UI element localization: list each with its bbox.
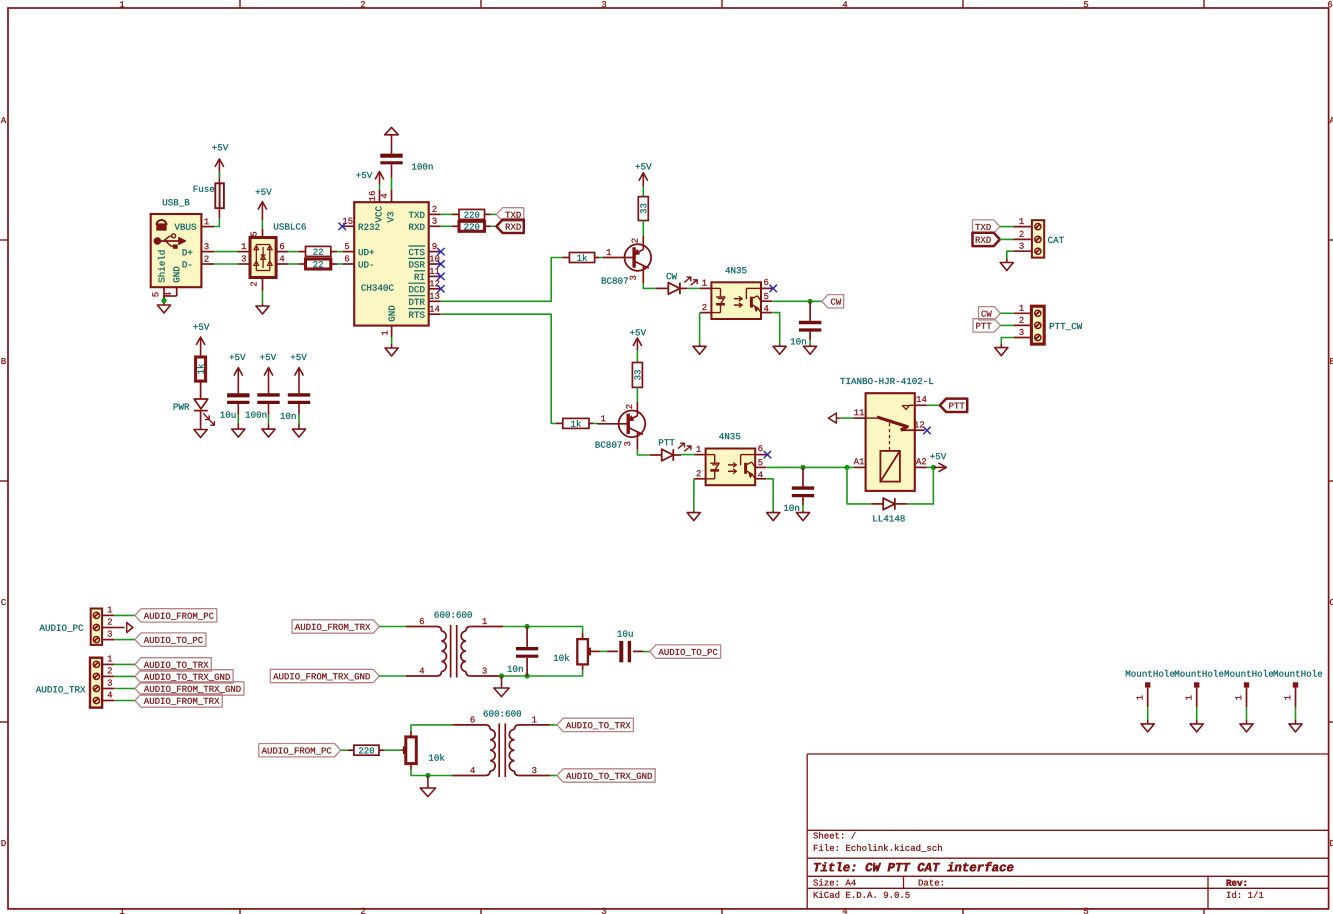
wire 4N35 pin4 to gnd [773, 313, 780, 345]
ground 100n [262, 423, 275, 437]
power +5V at CH340 VCC [356, 172, 384, 185]
power +5V at 33 (PTT) [630, 329, 646, 350]
wire USBLC6 pin6 to R 22 [288, 251, 298, 253]
wire H3 to gnd [1246, 707, 1248, 720]
wire LED to 4N35 pin1 (PTT) [681, 454, 694, 456]
global label AUDIO_TO_TRX at TR2 [557, 718, 633, 731]
global label PTT highlighted [940, 399, 967, 412]
wire +5V to R33 [642, 187, 644, 197]
resistor 1k (CW base) [562, 253, 599, 263]
global label CW [822, 295, 844, 308]
global label AUDIO_TO_PC at J4 [135, 633, 206, 646]
resistor 22 (D-) highlighted [299, 259, 338, 269]
ground 10n bypass [292, 423, 305, 437]
wire relay pin11 dangling [841, 417, 854, 419]
wire 1k to BC807 base [599, 257, 603, 259]
wire wiper to 10u [600, 650, 607, 652]
global label AUDIO_TO_TRX at J5 [135, 658, 211, 671]
LED PWR [174, 381, 215, 425]
resistor 1k (PWR) highlighted [196, 357, 206, 381]
wire 4N35 pin5 to CW label [773, 300, 822, 302]
transformer TR2 600:600 [452, 710, 550, 777]
IC CH340C U1 [342, 190, 441, 337]
wire J4 pin2 dangling [114, 627, 124, 629]
resistor 33 (PTT) [632, 363, 642, 388]
junction A2 [931, 465, 936, 470]
wire TR1 pin3 bus [501, 670, 583, 676]
wire TXD to R220 [441, 213, 452, 215]
wire label to R220 [341, 749, 348, 751]
wire Q1 collector to LED CW [643, 284, 655, 289]
unconnected end marker J4 pin2 [127, 623, 133, 633]
resistor 220 (RXD) highlighted [452, 221, 491, 231]
junction TR2 gnd tap [425, 773, 430, 778]
no-connect DSR [437, 260, 444, 267]
capacitor 10n bypass [281, 395, 311, 419]
ground PTT_CW [995, 344, 1008, 356]
wire 10n CW to gnd [809, 340, 811, 344]
no-connect DCD [437, 285, 444, 292]
wire J5 pin2 to label [114, 675, 135, 677]
LED CW indicator [656, 273, 698, 294]
ground flipped above 100n [385, 127, 399, 153]
ground H1 [1141, 720, 1154, 732]
wire pot top to TR2 pin6 [411, 725, 452, 731]
capacitor C? 10u coupling [607, 630, 643, 662]
global label AUDIO_TO_TRX_GND at J5 [135, 670, 233, 683]
ground 4N35 CW pin2 [693, 344, 706, 354]
no-connect 4N35 CW pin6 [770, 285, 777, 292]
global label AUDIO_TO_PC at 10u [650, 645, 721, 658]
junction PTT net at A1 [844, 465, 849, 470]
wire +5V to R33 PTT [636, 350, 638, 363]
wire R220 to TXD label [491, 213, 497, 215]
power +5V above USBLC6 [256, 189, 272, 220]
wire R33 to Q2 emitter [636, 387, 638, 402]
mounting hole H2 [1175, 670, 1224, 707]
wire 10n PTT to gnd [802, 505, 804, 511]
bypass capacitors +5V rails [230, 354, 307, 393]
global label PTT at PTT_CW [973, 319, 1000, 332]
wire to TR1 pin4 [379, 675, 406, 677]
wire 4N35 pin2 to gnd [699, 313, 701, 345]
wire CH340 GND [391, 337, 393, 344]
wire RXD to CAT pin2 [1000, 238, 1013, 240]
ground 10u [232, 423, 245, 437]
connector J2 CAT [1013, 218, 1064, 258]
title block [807, 754, 1328, 909]
ground 4N35 CW pin4 [773, 344, 786, 354]
wire 10u to label [643, 651, 649, 653]
optocoupler U3 4N35 (CW) [700, 267, 772, 319]
wire TR2 pin3 to label [550, 775, 557, 777]
mounting hole H1 [1126, 670, 1175, 707]
wire CAT pin3 to gnd [1007, 251, 1013, 258]
capacitor 100n (V3) [380, 156, 432, 170]
fuse F1 [194, 183, 224, 208]
wire TXD to CAT pin1 [1000, 226, 1013, 228]
global label AUDIO_TO_TRX_GND at TR2 [557, 769, 655, 782]
power +5V at relay A2 (rotated) [930, 453, 946, 472]
wire R220 to pot wiper [384, 749, 401, 751]
global label AUDIO_FROM_TRX_GND at J5 [135, 682, 244, 695]
diode D3 LL4148 [871, 498, 907, 521]
transistor Q2 BC807 (PTT) [596, 402, 646, 450]
connector J5 AUDIO_TRX [36, 655, 114, 707]
power +5V at 33 (CW) [636, 163, 652, 186]
global label RXD at CAT highlighted [973, 233, 1000, 246]
wire 100n to V3 pin [391, 164, 393, 190]
unconnected end marker pin11 [828, 413, 840, 423]
capacitor 10n (de-emphasis) [508, 627, 539, 677]
wire TR1 pin1 to pot [503, 627, 582, 634]
wire J5 pin4 to label [114, 700, 135, 702]
no-connect CTS [437, 248, 444, 255]
ground 4N35 PTT pin2 [687, 511, 700, 521]
wire 10n to gnd [298, 415, 300, 424]
resistor 22 (D+) [299, 246, 338, 256]
USB protection USBLC6 U2 [238, 223, 306, 290]
capacitor 10n (PTT) [784, 467, 814, 510]
ground H2 [1190, 720, 1203, 732]
wire R22 to CH340 UD+ [337, 251, 342, 253]
global label AUDIO_FROM_TRX_GND at TR1 [270, 669, 379, 682]
wire R220 to RXD label [491, 225, 497, 227]
ground H3 [1240, 720, 1253, 732]
wire DTR to CW 1k [441, 258, 563, 302]
wire USBLC6 pin2 to ground [262, 291, 264, 304]
junction 10n bottom [525, 673, 530, 678]
wire J5 pin3 to label [114, 688, 135, 690]
potentiometer RV2 10k highlighted [401, 731, 444, 769]
wire 100n to gnd [268, 415, 270, 424]
wire TR2 pin1 to label [550, 724, 557, 726]
ground CH340 [385, 344, 398, 356]
global label AUDIO_FROM_PC at R220 [259, 744, 341, 757]
wire H4 to gnd [1295, 707, 1297, 720]
wire RXD to R220 [441, 225, 452, 227]
junction CW net [808, 299, 813, 304]
wire +5V to USBLC6 pin5 [261, 220, 263, 229]
USB_B connector J1 [151, 199, 215, 299]
wire A1 to flyback diode [847, 467, 871, 504]
wire R22 to CH340 UD- [337, 263, 342, 265]
wire Q2 collector to LED PTT [637, 450, 650, 456]
ground H4 [1289, 720, 1302, 732]
no-connect 4N35 PTT pin6 [764, 451, 771, 458]
global label TXD [496, 208, 523, 221]
no-connect RI [437, 273, 444, 280]
LED PTT indicator [650, 439, 691, 460]
wire J4 pin1 to label [114, 614, 135, 616]
global label AUDIO_FROM_TRX at TR1 [292, 620, 379, 633]
wire relay pin14 to PTT label [927, 404, 940, 406]
global label CW at PTT_CW [979, 307, 1001, 320]
resistor 220 (audio) [348, 745, 384, 755]
ground 4N35 PTT pin4 [767, 511, 780, 521]
resistor 33 (CW) [638, 197, 648, 221]
wire 4N35 pin5 to relay A1 [767, 466, 854, 468]
wire fuse to VBUS [214, 208, 219, 226]
no-connect relay pin12 [923, 427, 930, 434]
wire H1 to gnd [1147, 707, 1149, 720]
global label AUDIO_FROM_TRX at J5 [135, 694, 222, 707]
wire VCC green [379, 185, 381, 190]
wire to TR1 pin6 [379, 626, 406, 628]
connector J4 AUDIO_PC [39, 606, 114, 644]
capacitor 10u [220, 395, 249, 417]
wire pot bottom to TR2 pin4 [411, 769, 452, 776]
ground CAT [1000, 259, 1013, 271]
ground PWR LED [194, 426, 207, 438]
wire 4N35 PTT pin2 to gnd [693, 479, 695, 511]
wire J4 pin3 to label [114, 639, 135, 641]
optocoupler U4 4N35 (PTT) [694, 433, 766, 485]
ground TR2 primary [420, 776, 435, 797]
wire A2 to +5V junction [927, 466, 934, 468]
wire D- to USBLC6 [214, 263, 238, 265]
ground 10n PTT [796, 511, 809, 521]
ground USBLC6 [256, 304, 269, 315]
mounting hole H4 [1274, 670, 1323, 707]
junction PTT net at cap [800, 465, 805, 470]
resistor 1k (PTT base) [556, 418, 593, 428]
wire 1k to Q2 base [593, 422, 597, 424]
wire 10u to gnd [237, 415, 239, 424]
capacitor 10n (CW) [791, 301, 822, 344]
no-connect CH340 pin15 [339, 223, 346, 230]
global label TXD at CAT [973, 220, 1000, 233]
potentiometer RV1 10k [554, 633, 600, 670]
global label RXD highlighted [496, 220, 523, 233]
wire J5 pin1 to label [114, 663, 135, 665]
junction TR1 sec top [525, 624, 530, 629]
power +5V above fuse [212, 144, 228, 183]
wire diode to A2 [907, 467, 933, 504]
transformer TR1 600:600 [406, 611, 503, 677]
wire R33 to Q1 emitter [642, 221, 644, 237]
junction USB shield-gnd [161, 296, 166, 303]
wire PTT_CW pin3 to gnd [1001, 338, 1013, 344]
wire USBLC6 pin4 to R 22 [288, 263, 298, 265]
wire D+ to USBLC6 [214, 251, 238, 253]
wire H2 to gnd [1196, 707, 1198, 720]
transistor Q1 BC807 (CW) [602, 236, 651, 284]
mounting hole H3 [1225, 670, 1274, 707]
wire CW to PTT_CW pin1 [1000, 312, 1013, 314]
ground 10n CW [804, 344, 817, 354]
wire RTS to PTT 1k [441, 314, 556, 423]
junction TR1 sec bottom gnd tap [499, 673, 504, 678]
wire LED to 4N35 pin1 [687, 287, 700, 289]
power +5V at PWR resistor [193, 324, 209, 357]
resistor 220 (TXD) [452, 209, 491, 219]
capacitor 100n bypass [246, 395, 280, 418]
global label AUDIO_FROM_PC at J4 [135, 609, 217, 622]
wire PTT to PTT_CW pin2 [1000, 324, 1013, 326]
wire 4N35 pin4 to gnd [767, 479, 773, 511]
connector J3 PTT_CW highlighted [1014, 305, 1083, 344]
wire fuse +5V green segment [218, 172, 220, 178]
relay K1 TIANBO-HJR-4102-L [840, 378, 933, 491]
ground USB_B [157, 303, 170, 313]
ground TR1 secondary [494, 676, 509, 697]
